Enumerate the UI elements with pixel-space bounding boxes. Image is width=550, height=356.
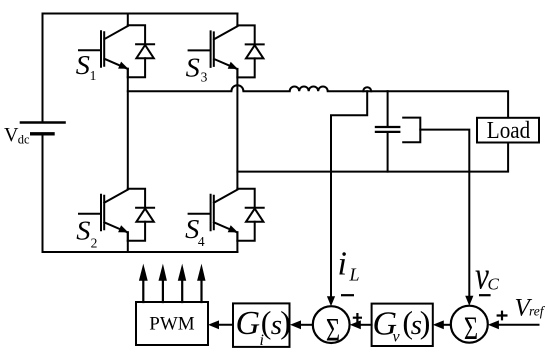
svg-text:S: S	[186, 52, 200, 82]
transistor S2 (IGBT)	[79, 189, 154, 241]
arrowhead into sigma 1 from Gv(s)	[350, 320, 361, 329]
diode D2 (freewheeling)	[128, 189, 154, 241]
wire: leg1 middle (S1 emitter to S2 collector, node a)	[127, 69, 129, 189]
svg-text:L: L	[349, 265, 360, 285]
svg-text:Σ: Σ	[464, 310, 478, 346]
svg-text:ref: ref	[529, 304, 546, 319]
label Load	[477, 118, 539, 143]
svg-text:i: i	[338, 246, 347, 283]
arrow: Gv(s) output into sigma 1	[360, 324, 372, 326]
svg-text:V: V	[4, 124, 19, 146]
voltage sensor bracket across capacitor (vC measuring)	[403, 118, 420, 143]
battery Vdc negative plate	[32, 132, 53, 135]
arrow: sigma 1 output into Gi(s)	[300, 324, 313, 326]
transistor S3 (IGBT)	[189, 25, 264, 77]
arrow: Vref input into sigma 2	[499, 324, 539, 326]
wire: leg1 bottom (S2 emitter to negative rail)	[127, 232, 129, 252]
svg-text:Load: Load	[487, 117, 531, 144]
arrowhead into Gv(s)	[433, 320, 444, 329]
wire: leg2 top (S3 collector feed)	[236, 14, 238, 26]
block Gi(s) current controller	[233, 303, 290, 347]
svg-text:S: S	[76, 50, 90, 80]
svg-text:S: S	[76, 215, 90, 245]
PWM gate arrowheads (4, pointing up)	[139, 264, 148, 281]
transistor S1 (IGBT)	[79, 25, 154, 77]
svg-text:): )	[280, 304, 291, 340]
wire: leg2 bottom (S4 emitter to negative rail)	[236, 232, 238, 252]
diode D3 (freewheeling)	[237, 25, 263, 77]
wire: DC bus negative, left vertical + bottom rail	[43, 135, 238, 253]
svg-text:v: v	[393, 329, 401, 346]
battery Vdc positive plate	[21, 121, 65, 124]
minus sign at sigma 1 (iL negative)	[341, 294, 354, 296]
wire: DC bus positive, left vertical + top rail	[43, 14, 238, 122]
arrowhead iL down into sigma 1	[327, 296, 335, 306]
svg-text:1: 1	[90, 68, 97, 83]
wire: vC sense tap right and down to summing node	[420, 130, 469, 297]
capacitor C top feed wire	[387, 91, 389, 126]
arrowhead into Gi(s)	[290, 320, 301, 329]
diode D4 (freewheeling)	[237, 189, 263, 241]
transistor S4 (IGBT)	[189, 189, 264, 241]
summing junction sigma 1 (current loop)	[313, 306, 350, 343]
svg-text:3: 3	[201, 70, 208, 85]
svg-text:): )	[420, 304, 431, 340]
arrowhead vC down into sigma 2	[465, 296, 473, 306]
plus sign at sigma 1	[353, 313, 362, 322]
svg-text:Σ: Σ	[326, 312, 340, 348]
plus sign at sigma 2	[497, 311, 508, 321]
summing junction sigma 2 (voltage loop)	[451, 306, 488, 343]
block PWM	[136, 302, 208, 345]
arrow: sigma 2 output into Gv(s)	[443, 324, 451, 326]
svg-text:2: 2	[91, 235, 98, 250]
minus sign at sigma 2 (vC negative)	[479, 294, 491, 296]
svg-text:PWM: PWM	[149, 314, 195, 335]
wire: output rail node b (bottom) to load bottom	[237, 143, 508, 172]
arrowhead into PWM	[208, 320, 219, 329]
wire: leg1 top (S1 collector feed)	[127, 14, 129, 26]
diode D1 (freewheeling)	[128, 25, 154, 77]
arrow: Gi(s) output into PWM	[218, 324, 233, 326]
svg-text:4: 4	[198, 234, 205, 249]
current sensor loop on output rail (iL measuring point)	[363, 87, 371, 91]
svg-text:dc: dc	[18, 133, 30, 147]
PWM gate drive arrows shafts (4)	[143, 280, 201, 302]
wire: leg2 middle (S3 emitter to S4 collector, node b)	[236, 69, 238, 189]
block Gv(s) voltage controller	[372, 304, 433, 346]
wire: iL sense tap down and left	[331, 91, 367, 297]
arrowhead into sigma 2 from Vref	[488, 320, 499, 329]
svg-text:G: G	[236, 305, 261, 342]
wire: output rail node a with crossover hop at leg2 and inductor L, to load top	[128, 85, 508, 118]
capacitor C bottom wire	[387, 133, 389, 172]
capacitor C plates	[376, 127, 399, 132]
svg-text:C: C	[488, 275, 500, 294]
